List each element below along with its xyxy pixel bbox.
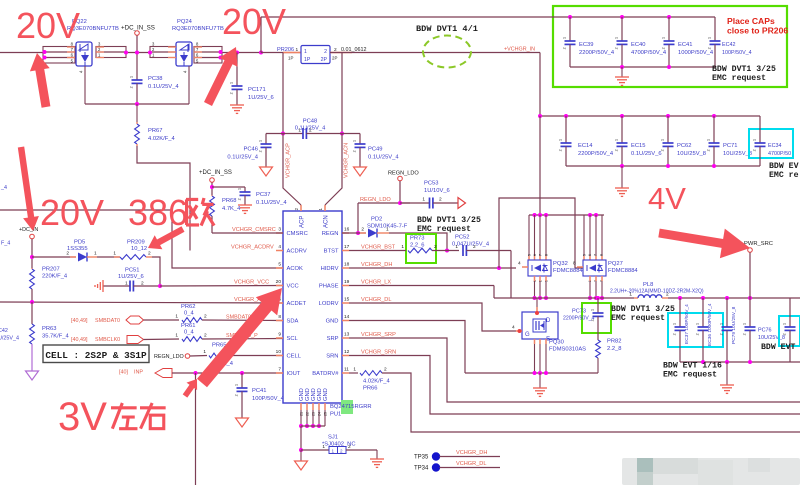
svg-text:1: 1 (422, 197, 425, 203)
svg-text:4700P/50: 4700P/50 (768, 151, 791, 157)
svg-text:2200P/50V_4: 2200P/50V_4 (563, 316, 595, 322)
svg-text:EC15: EC15 (631, 143, 646, 149)
svg-text:SMBDAT0: SMBDAT0 (95, 318, 120, 324)
svg-text:VCHGR_CMSRC: VCHGR_CMSRC (232, 227, 276, 233)
ground under PC46 (260, 167, 273, 176)
svg-text:0.1U/25V_4: 0.1U/25V_4 (227, 155, 258, 161)
svg-text:FDMC8884: FDMC8884 (553, 268, 583, 274)
wire main 20V input bus (0, 52, 261, 54)
svg-text:VCHGR_SRP: VCHGR_SRP (361, 332, 396, 338)
diode PD5 (32, 240, 97, 262)
junction DC_IN diode tap (30, 255, 34, 259)
svg-text:10U/25V_4: 10U/25V_4 (0, 336, 19, 342)
annotation small arrow to INP junction (183, 379, 197, 398)
capacitor EC14 (559, 114, 614, 166)
ground chassis left of PC51 (95, 280, 103, 292)
svg-text:PR73: PR73 (410, 236, 425, 242)
label VCHGR_ACDRV (231, 245, 274, 251)
IC right pins (312, 227, 349, 378)
resistor PR67 (135, 104, 176, 146)
wire VCHGR_IN run (330, 53, 540, 117)
resistor PR207 (30, 267, 68, 303)
svg-text:2: 2 (384, 367, 387, 373)
svg-text:PR209: PR209 (127, 240, 145, 246)
svg-text:4: 4 (518, 261, 521, 267)
svg-text:1: 1 (230, 82, 234, 84)
wire CMSRC row (212, 232, 283, 234)
svg-text:PQ27: PQ27 (608, 261, 623, 267)
transistor PQ22 body (76, 42, 92, 66)
svg-text:PR62: PR62 (181, 304, 196, 310)
wire PR209 to VCC node (152, 257, 160, 286)
wire LODRV to PQ30 gate (349, 303, 516, 331)
svg-text:2: 2 (204, 333, 207, 339)
svg-text:1: 1 (235, 384, 239, 386)
svg-text:4: 4 (512, 325, 515, 331)
svg-text:REGN_LDO: REGN_LDO (388, 171, 419, 177)
resistor PR209 (97, 240, 152, 260)
wire gate line PQ22-PQ24 (85, 102, 189, 106)
svg-text:[40,49]: [40,49] (71, 318, 88, 324)
svg-text:TP35: TP35 (414, 455, 429, 461)
svg-text:2: 2 (783, 333, 787, 335)
svg-text:1: 1 (708, 37, 712, 39)
svg-text:PR63: PR63 (42, 326, 57, 332)
svg-text:EMC request: EMC request (663, 371, 717, 380)
label VCHGR_ACN (344, 143, 350, 178)
svg-text:VCHGR_SRN: VCHGR_SRN (361, 350, 396, 356)
svg-text:10U/25V_8: 10U/25V_8 (723, 151, 752, 157)
svg-text:BATDRV#: BATDRV# (312, 371, 339, 377)
svg-text:1: 1 (615, 139, 619, 141)
EMC green box top (553, 6, 787, 87)
svg-text:Place CAPs: Place CAPs (727, 16, 775, 26)
testpoint TP35 (414, 450, 500, 461)
svg-text:PR67: PR67 (148, 128, 163, 134)
svg-text:4: 4 (278, 244, 281, 250)
svg-text:1: 1 (238, 188, 242, 190)
transistor PQ27 (573, 254, 638, 282)
svg-text:PD2: PD2 (371, 217, 382, 223)
svg-text:24: 24 (318, 412, 322, 416)
svg-text:14: 14 (344, 314, 350, 320)
svg-text:1: 1 (304, 49, 307, 55)
svg-text:1: 1 (615, 37, 619, 39)
label VCHGR_BST (361, 245, 396, 251)
svg-text:1: 1 (743, 323, 747, 325)
capacitor PC46 (227, 134, 283, 168)
svg-text:BDW DVT1 4/1: BDW DVT1 4/1 (416, 24, 478, 34)
svg-text:PR207: PR207 (42, 267, 60, 273)
connector INP (119, 369, 172, 378)
svg-text:1: 1 (332, 448, 335, 453)
svg-text:VCHGR_LX: VCHGR_LX (361, 280, 391, 286)
svg-text:VCC: VCC (287, 284, 299, 290)
svg-text:100P/50V_4: 100P/50V_4 (722, 50, 752, 56)
label PQ24 (172, 19, 224, 32)
svg-text:REGN_LDO: REGN_LDO (154, 354, 184, 360)
svg-text:PR68: PR68 (222, 198, 237, 204)
svg-text:1SS355: 1SS355 (67, 246, 88, 252)
svg-text:PL8: PL8 (643, 282, 653, 288)
jumper SJ1 (301, 435, 377, 454)
annotation glyph ZUO (111, 403, 137, 429)
svg-text:PC79 10U/25V_8: PC79 10U/25V_8 (731, 306, 737, 344)
svg-text:1: 1 (353, 367, 356, 373)
svg-text:2: 2 (615, 47, 619, 49)
wire PR206 kelvin taps (283, 53, 342, 134)
capacitor EC34 (753, 116, 792, 166)
wire INP drop to bottom (195, 373, 197, 485)
capacitor PC76 (743, 298, 785, 362)
svg-text:PC46: PC46 (243, 147, 258, 153)
svg-text:PC53: PC53 (424, 181, 439, 187)
svg-text:CMSRC: CMSRC (287, 231, 308, 237)
svg-text:2: 2 (130, 86, 134, 88)
svg-text:ACDRV: ACDRV (287, 249, 307, 255)
junction PR206 left (259, 51, 263, 55)
node PWR_SRC (744, 241, 773, 298)
svg-text:1: 1 (259, 140, 263, 142)
note BDW EV EMC re (769, 162, 799, 180)
wire GND pins drop (299, 426, 303, 452)
svg-text:2: 2 (559, 149, 563, 151)
svg-text:2: 2 (148, 251, 151, 257)
transistor PQ24 body (176, 42, 192, 66)
svg-text:4.7K_4: 4.7K_4 (222, 206, 241, 212)
annotation arrow down to DC_IN (18, 147, 39, 232)
svg-text:REGN_LDO: REGN_LDO (360, 197, 391, 203)
resistor PR73 (349, 236, 459, 253)
svg-text:21: 21 (300, 412, 304, 416)
wire VIN drop to FET bus (539, 116, 541, 215)
svg-text:2: 2 (743, 333, 747, 335)
svg-text:SCL: SCL (287, 336, 299, 342)
svg-text:close to PR206: close to PR206 (727, 26, 788, 36)
transistor PQ22 gate pin 4 (79, 66, 86, 104)
label SMBDAT0_P (226, 315, 258, 321)
svg-text:IOUT: IOUT (287, 371, 301, 377)
green dashed ellipse (423, 36, 471, 68)
svg-text:20V: 20V (222, 1, 286, 42)
wire PD2 to BST node (389, 233, 449, 253)
svg-text:1U/25V_6: 1U/25V_6 (248, 95, 274, 101)
wire SRP run (349, 338, 800, 402)
annotation big arrow to VCC (197, 288, 282, 387)
inductor PL8 (610, 282, 704, 298)
transistor PQ22 right pin bracket pins 3 2 1 (96, 42, 128, 58)
capacitor EC41 (662, 15, 714, 69)
svg-text:EC36 1000P/50V_4: EC36 1000P/50V_4 (707, 303, 713, 346)
svg-text:BDW DVT1 3/25: BDW DVT1 3/25 (417, 215, 481, 225)
svg-text:EMC re: EMC re (769, 171, 799, 180)
svg-text:2: 2 (666, 292, 669, 298)
node +DC_IN (19, 227, 38, 268)
svg-text:SRP: SRP (327, 336, 339, 342)
label VCHGR_VCC (234, 280, 269, 286)
label VCHGR_SRP (361, 332, 396, 338)
svg-text:20V: 20V (40, 192, 104, 233)
cell table box (43, 345, 149, 363)
wire LX bus (494, 297, 634, 299)
transistor PQ24 right pin bracket pins 8 7 6 5 (194, 42, 223, 64)
svg-text:7: 7 (539, 254, 543, 256)
svg-text:0.1U/25V_6: 0.1U/25V_6 (631, 151, 662, 157)
label SMBCLK0_P (226, 333, 258, 339)
svg-text:ACDET: ACDET (287, 301, 307, 307)
capacitor PC80 cyan box right (779, 316, 800, 346)
svg-text:2: 2 (615, 149, 619, 151)
svg-text:1: 1 (662, 37, 666, 39)
capacitor PC41 (235, 373, 285, 418)
svg-text:F_4: F_4 (1, 241, 10, 247)
svg-text:20: 20 (276, 279, 282, 285)
svg-text:PR82: PR82 (607, 339, 622, 345)
svg-text:BDW EV: BDW EV (769, 162, 799, 171)
capacitor EC34 cyan highlight (749, 129, 793, 158)
svg-text:FDMC8884: FDMC8884 (608, 268, 638, 274)
watermark blocks (622, 458, 800, 485)
svg-text:2: 2 (707, 149, 711, 151)
svg-text:PC41: PC41 (252, 388, 267, 394)
ground under PC171 (230, 105, 244, 113)
wire FET drain drops (529, 215, 602, 261)
svg-text:EC42: EC42 (722, 42, 736, 48)
transistor PQ30 pins (512, 298, 539, 333)
svg-text:0.1U/25V_4: 0.1U/25V_4 (148, 84, 179, 90)
annotation arrow up-mid (204, 47, 238, 106)
svg-text:2P: 2P (321, 57, 328, 63)
capacitor EC37 (673, 298, 691, 362)
svg-text:BDW DVT1 3/25: BDW DVT1 3/25 (712, 64, 776, 74)
svg-text:2200P/50V_4: 2200P/50V_4 (579, 50, 615, 56)
svg-text:_4: _4 (0, 185, 7, 191)
svg-text:VCHGR_VCC: VCHGR_VCC (234, 280, 269, 286)
svg-text:EC14: EC14 (578, 143, 593, 149)
IC top pins ACP ACN (294, 205, 330, 228)
svg-text:2: 2 (238, 198, 242, 200)
svg-text:PC52: PC52 (455, 235, 470, 241)
junction PR68 top (210, 185, 245, 189)
resistor PR73 green box (406, 234, 436, 263)
svg-text:EMC request: EMC request (611, 314, 665, 323)
svg-text:VCHGR_DH: VCHGR_DH (361, 262, 392, 268)
svg-text:1: 1 (353, 140, 357, 142)
capacitor PC80 (783, 298, 796, 362)
svg-text:386: 386 (128, 192, 188, 233)
svg-text:0.1U/25V_4: 0.1U/25V_4 (368, 155, 399, 161)
svg-text:SJ1: SJ1 (328, 435, 338, 441)
note BDW DVT1 3-25 EMC request mid (417, 215, 481, 234)
capacitor PC38 (130, 76, 180, 104)
svg-text:2: 2 (661, 149, 665, 151)
note BDW EVT right (761, 343, 795, 352)
svg-text:1: 1 (707, 139, 711, 141)
svg-text:EC40: EC40 (631, 42, 646, 48)
node +DC_IN_SS top (121, 25, 155, 81)
wire ACDET bus (0, 300, 283, 304)
wire row3 bottom bus (680, 360, 800, 364)
svg-text:17: 17 (344, 244, 350, 250)
svg-text:2: 2 (204, 314, 207, 320)
svg-text:BTST: BTST (324, 249, 339, 255)
svg-text:CELL : 2S2P & 3S1P: CELL : 2S2P & 3S1P (45, 350, 147, 361)
label REGN_LDO mid (360, 197, 391, 203)
wire ACOK feed (0, 210, 283, 268)
svg-text:1U/10V_6: 1U/10V_6 (424, 188, 450, 194)
svg-text:1: 1 (455, 244, 458, 250)
resistor PR65 100K (203, 343, 283, 368)
svg-text:PC71: PC71 (723, 143, 738, 149)
wire top bus riser (260, 17, 262, 53)
svg-text:6: 6 (588, 254, 592, 256)
svg-text:1: 1 (563, 37, 567, 39)
svg-text:13: 13 (344, 332, 350, 338)
wire cap row2 top bus (538, 114, 760, 118)
wire PC52 to LX (510, 251, 512, 299)
label F_4 fragment (1, 241, 10, 247)
svg-text:2200P/50V_4: 2200P/50V_4 (578, 151, 614, 157)
wire ACP ACN kelvin (281, 132, 344, 206)
capacitor EC36 (696, 298, 714, 362)
note Place CAPs close to PR206 (727, 16, 788, 36)
svg-text:EMC request: EMC request (712, 74, 766, 83)
ground under SJ1 left (295, 450, 308, 470)
capacitor PC79 (720, 298, 738, 362)
svg-text:PR66: PR66 (363, 386, 378, 392)
svg-text:SDM10K45-7-F: SDM10K45-7-F (367, 224, 408, 230)
wire FET source drops (533, 276, 605, 300)
svg-text:2: 2 (259, 150, 263, 152)
wire ground bus (465, 372, 598, 374)
svg-text:2: 2 (340, 448, 343, 453)
svg-text:PC37: PC37 (256, 192, 271, 198)
svg-text:19: 19 (344, 279, 350, 285)
svg-text:1: 1 (753, 139, 757, 141)
svg-text:PHASE: PHASE (319, 284, 339, 290)
svg-text:1: 1 (591, 309, 595, 311)
svg-text:1: 1 (94, 251, 97, 257)
svg-text:HIDRV: HIDRV (321, 266, 339, 272)
svg-text:PQ24: PQ24 (177, 19, 193, 25)
svg-text:1U/25V_6: 1U/25V_6 (118, 274, 144, 280)
wire LX out bus (596, 296, 800, 300)
svg-text:1000P/50V_4: 1000P/50V_4 (678, 50, 714, 56)
svg-text:4700P/50V_4: 4700P/50V_4 (631, 50, 667, 56)
svg-text:22: 22 (306, 412, 310, 416)
svg-text:BQ24715RGRR: BQ24715RGRR (330, 404, 372, 410)
svg-text:1: 1 (322, 444, 325, 450)
svg-text:1: 1 (661, 139, 665, 141)
svg-text:2: 2 (473, 244, 476, 250)
annotation glyph OU (186, 198, 214, 226)
svg-text:+DC_IN_SS: +DC_IN_SS (199, 170, 232, 176)
label VCHGR ACDET (234, 297, 265, 303)
wire BATDRV run (382, 373, 800, 432)
svg-text:PC48: PC48 (303, 119, 318, 125)
connector SMBDAT0 (71, 316, 144, 324)
label VCHGR_CMSRC (232, 227, 276, 233)
svg-text:4.02K/F_4: 4.02K/F_4 (148, 136, 176, 142)
svg-text:PC51: PC51 (125, 268, 140, 274)
svg-text:5: 5 (528, 254, 532, 256)
note BDW DVT1 4-1 (416, 24, 478, 34)
svg-text:[40,49]: [40,49] (71, 337, 88, 343)
capacitor EC42 (708, 17, 752, 67)
resistor PR82 (596, 339, 622, 374)
capacitor PC71 (707, 114, 753, 168)
capacitor PC49 (342, 134, 399, 168)
svg-text:ACP: ACP (300, 216, 306, 228)
transistor PQ22 left pin bracket pins 8 7 6 5 (43, 42, 76, 64)
annotation 20V top-left (16, 5, 80, 46)
label VCHGR_DH (361, 262, 392, 268)
wire GND row to ground bus (349, 321, 465, 374)
svg-text:REGN: REGN (322, 231, 339, 237)
svg-text:2.2_6: 2.2_6 (410, 243, 425, 249)
svg-text:1: 1 (629, 292, 632, 298)
red pin stubs PQ24 (168, 47, 202, 58)
resistor PR68 (210, 195, 242, 233)
svg-text:220K/F_4: 220K/F_4 (42, 274, 68, 280)
svg-text:1: 1 (720, 323, 724, 325)
svg-text:100P/50V_4: 100P/50V_4 (252, 396, 285, 402)
svg-text:VCHGR_ACDRV: VCHGR_ACDRV (231, 245, 274, 251)
svg-text:C42: C42 (0, 328, 8, 334)
svg-text:PC62: PC62 (677, 143, 692, 149)
svg-text:10U/25V_8: 10U/25V_8 (677, 151, 706, 157)
svg-text:VCHGR_DL: VCHGR_DL (456, 461, 486, 467)
svg-text:1: 1 (130, 76, 134, 78)
svg-text:0.1U/25V_4: 0.1U/25V_4 (256, 200, 287, 206)
svg-text:SMBCLK0: SMBCLK0 (95, 337, 120, 343)
transistor PQ30 (522, 312, 586, 353)
svg-text:9: 9 (278, 332, 281, 338)
svg-text:FDMS0310AS: FDMS0310AS (549, 347, 586, 353)
svg-text:SDA: SDA (287, 319, 299, 325)
svg-text:2: 2 (361, 227, 364, 233)
capacitor PC48 (283, 119, 342, 140)
capacitor PC52 (452, 235, 511, 257)
svg-text:VCHGR_DH: VCHGR_DH (456, 450, 487, 456)
ground under SJ1 right (370, 450, 384, 467)
svg-text:BDW DVT1 3/25: BDW DVT1 3/25 (611, 304, 675, 314)
svg-text:PR61: PR61 (181, 323, 196, 329)
svg-text:10: 10 (276, 349, 282, 355)
red pin stubs PQ22 (67, 47, 104, 58)
svg-text:PC38: PC38 (148, 76, 163, 82)
note BDW DVT1 3-25 EMC request top (712, 64, 776, 83)
svg-text:1: 1 (673, 323, 677, 325)
svg-text:6: 6 (533, 254, 537, 256)
svg-text:2: 2 (720, 333, 724, 335)
svg-text:1: 1 (401, 244, 404, 250)
svg-text:BDW EVT 1/16: BDW EVT 1/16 (663, 361, 722, 371)
wire IOUT row (172, 371, 283, 375)
resistor PR61 (144, 323, 284, 341)
ground under PC49 (354, 167, 367, 176)
wire cap row1 bottom bus (570, 66, 715, 68)
svg-text:1: 1 (559, 139, 563, 141)
svg-text:+DC_IN: +DC_IN (19, 227, 38, 233)
svg-text:PQ30: PQ30 (549, 340, 564, 346)
wire PHASE to LX (349, 286, 494, 299)
label VCHGR_ACP (286, 143, 292, 178)
annotation 20V top-mid (222, 1, 286, 42)
capacitor EC39 (563, 15, 615, 67)
resistor PR206 (261, 46, 366, 64)
svg-text:2: 2 (324, 49, 327, 55)
